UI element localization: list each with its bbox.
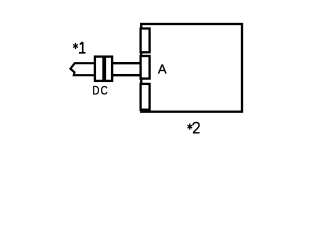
svg-text:D: D — [92, 84, 99, 97]
svg-text:A: A — [158, 62, 167, 77]
svg-text:C: C — [101, 84, 108, 97]
